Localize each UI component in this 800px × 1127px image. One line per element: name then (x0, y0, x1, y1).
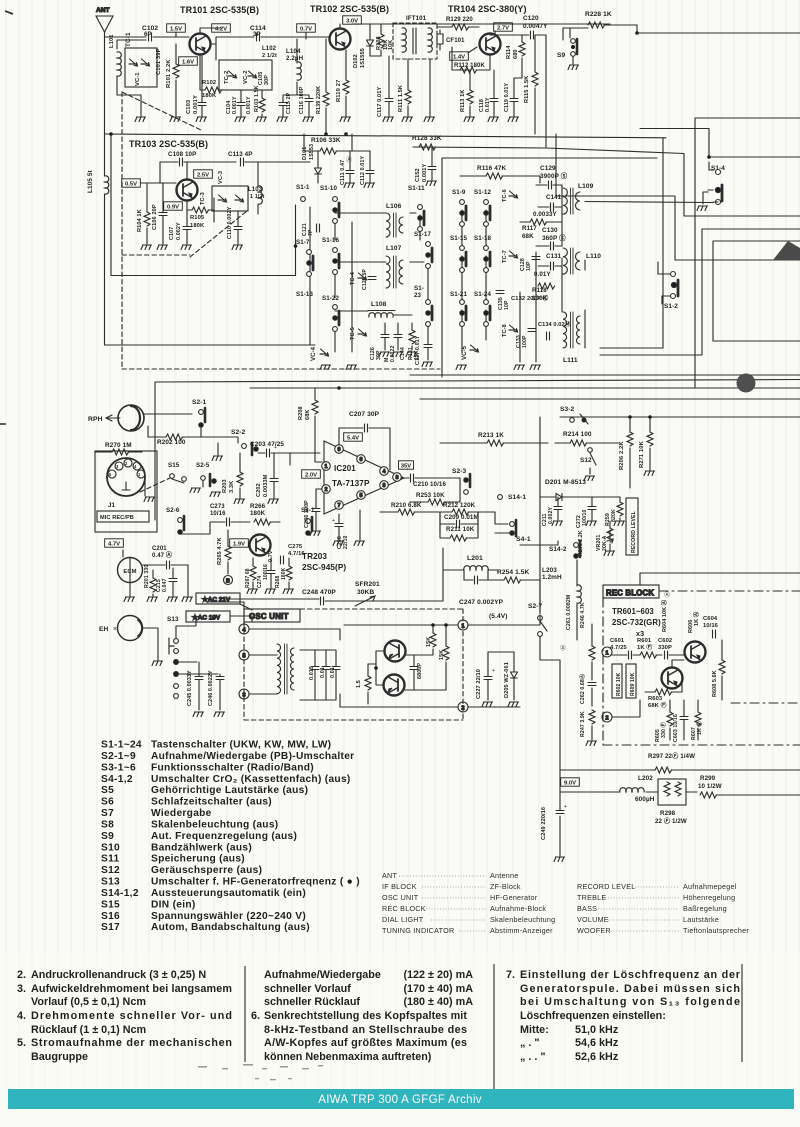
svg-text:S4-1: S4-1 (516, 536, 531, 543)
resistor R267x (250, 566, 256, 580)
w (629, 417, 631, 432)
resistor R101 (173, 64, 179, 78)
resistor R201b (150, 578, 156, 592)
svg-text:2 1/2t: 2 1/2t (262, 53, 277, 59)
resistor R202 (166, 434, 183, 440)
svg-text:R265 4.7K: R265 4.7K (217, 537, 223, 565)
svg-text:C106 20P: C106 20P (152, 204, 158, 230)
svg-text:S1-: S1- (414, 285, 424, 292)
svg-text:R601: R601 (637, 638, 652, 644)
diode D101 (315, 168, 322, 174)
switch S3-1 (306, 517, 312, 535)
wire R139 top (325, 39, 327, 92)
svg-text:C108 10P: C108 10P (168, 151, 196, 158)
label R609 box (626, 664, 636, 698)
svg-text:WOOFER: WOOFER (577, 926, 611, 935)
svg-text:7: 7 (338, 503, 341, 509)
w (162, 183, 164, 244)
wire bus AGC (413, 35, 546, 148)
wire right matrix cols (462, 210, 486, 352)
svg-text:23: 23 (414, 292, 422, 299)
ground (383, 117, 394, 122)
svg-text:0.001Y: 0.001Y (246, 96, 252, 114)
w (152, 570, 154, 596)
capacitor C209x (457, 520, 460, 528)
svg-text:S1-11: S1-11 (408, 185, 425, 192)
headphone jack RPH (106, 405, 144, 431)
capacitor C111 (346, 171, 354, 174)
resistor R605x (667, 712, 673, 726)
svg-text:L202: L202 (638, 775, 653, 782)
capacitor C104 (237, 103, 245, 106)
svg-text:TR103 2SC-535(B): TR103 2SC-535(B) (129, 139, 208, 149)
ground (402, 117, 413, 122)
w (201, 437, 238, 443)
svg-text:B: B (226, 579, 230, 585)
trimmer TC-8 (509, 325, 518, 332)
svg-text:2.5V: 2.5V (197, 172, 209, 178)
svg-text:9: 9 (338, 447, 341, 453)
wire output box inner (713, 241, 800, 341)
ground (392, 352, 403, 357)
transformer L109 (563, 188, 580, 214)
svg-text:52,6 kHz: 52,6 kHz (575, 1051, 619, 1063)
switch S2-7 (538, 616, 547, 637)
capacitor C144 (394, 335, 402, 338)
wire R116 (460, 176, 540, 183)
label MIC REC/PB (97, 511, 149, 522)
wire IFT gnd (429, 59, 431, 116)
transformer T501 (277, 644, 294, 694)
svg-text:R246 4.7K: R246 4.7K (580, 602, 586, 628)
svg-text:1K Ⓟ: 1K Ⓟ (637, 643, 652, 651)
svg-text:C152: C152 (415, 168, 421, 182)
svg-text:1.4V: 1.4V (453, 54, 465, 60)
svg-text:C245 0.0033Y: C245 0.0033Y (187, 670, 193, 706)
svg-text:Schlafzeitschalter (aus): Schlafzeitschalter (aus) (151, 797, 272, 808)
w (488, 652, 500, 700)
svg-text:10P: 10P (526, 261, 532, 271)
capacitor C125 (368, 277, 376, 280)
w (440, 511, 495, 513)
svg-text:S14-1: S14-1 (508, 494, 526, 501)
resistor R139 (323, 92, 329, 106)
capacitor C112 (366, 171, 374, 174)
transistor TR601x (662, 668, 683, 689)
resistor VR201x (607, 528, 613, 542)
osc pin 3 (239, 689, 249, 699)
transistor TR102 (330, 29, 351, 50)
svg-text:Einstellung der Löschfrequenz: Einstellung der Löschfrequenz an der (520, 969, 741, 981)
wire TR103 collector (186, 162, 188, 179)
svg-text:1.9V: 1.9V (233, 541, 245, 547)
inductor L203x (577, 585, 581, 603)
wire L101 bottom (117, 76, 141, 95)
svg-text:10 1/2W: 10 1/2W (698, 783, 722, 790)
junction (628, 415, 632, 419)
svg-text:Antenne: Antenne (490, 871, 519, 880)
svg-text:Skalenbeleuchtung: Skalenbeleuchtung (490, 915, 555, 924)
svg-text:180K: 180K (250, 510, 266, 517)
wire L109 out (585, 202, 713, 203)
junction (344, 132, 348, 136)
svg-text:C117 0.01Y: C117 0.01Y (377, 87, 383, 117)
ground (554, 857, 565, 862)
switch S1-10 (333, 197, 339, 224)
inductor L202 (620, 788, 644, 792)
svg-text:+: + (492, 668, 495, 674)
svg-text:S15: S15 (168, 462, 180, 469)
capacitor C131 (551, 262, 554, 270)
IC201 pin 9 (335, 445, 344, 454)
svg-text:C113 4P: C113 4P (228, 151, 252, 158)
svg-text:+: + (332, 518, 335, 524)
svg-text:Mitte:: Mitte: (520, 1024, 549, 1036)
w (144, 477, 146, 496)
svg-text:L105 5t: L105 5t (87, 170, 94, 193)
ground (604, 551, 615, 556)
svg-text:C273: C273 (210, 504, 225, 510)
w (380, 24, 382, 34)
svg-text:S10: S10 (101, 842, 120, 853)
w (560, 769, 655, 771)
w (338, 514, 340, 540)
svg-text:S3-2: S3-2 (560, 406, 575, 413)
svg-text:100P: 100P (522, 335, 528, 348)
ground (530, 365, 541, 370)
svg-text:D201 M-8513: D201 M-8513 (545, 479, 586, 486)
svg-text:S1-1~24: S1-1~24 (101, 740, 142, 751)
ground (422, 362, 433, 367)
svg-text:C202: C202 (256, 483, 262, 497)
svg-text:4: 4 (383, 469, 386, 475)
REC block dashed outline (603, 591, 800, 745)
svg-text:D101: D101 (302, 147, 308, 160)
capacitor C603x (680, 717, 688, 720)
svg-text:Aussteuerungsautomatik (ein): Aussteuerungsautomatik (ein) (151, 888, 306, 899)
transistor TR101 (190, 34, 211, 55)
wire R202 (148, 426, 201, 437)
svg-text:S1-1: S1-1 (296, 184, 310, 191)
capacitor C120 (531, 31, 534, 39)
w (468, 26, 479, 28)
svg-text:51,0 kHz: 51,0 kHz (575, 1024, 619, 1036)
svg-text:REC BLOCK: REC BLOCK (606, 589, 654, 598)
w (536, 245, 562, 247)
svg-text:R201 330: R201 330 (144, 565, 150, 588)
svg-text:0.5V: 0.5V (125, 181, 137, 187)
svg-text:S12: S12 (580, 457, 592, 464)
svg-text:680: 680 (513, 49, 519, 59)
svg-text:R228 1K: R228 1K (585, 11, 612, 18)
capacitor C129 (549, 181, 552, 189)
capacitor C211x (554, 507, 562, 510)
w (521, 35, 523, 42)
w (464, 570, 498, 580)
trimmer TC-2 (228, 71, 237, 78)
svg-text:C203 47/25: C203 47/25 (250, 441, 284, 448)
svg-text:S17: S17 (101, 922, 120, 933)
svg-text:VOLUME: VOLUME (577, 915, 609, 924)
capacitor C208 (335, 524, 343, 527)
svg-text:CF101: CF101 (446, 38, 465, 44)
resistor R106 (320, 148, 337, 154)
DIN socket J1 (95, 451, 157, 532)
capacitor C133 (528, 329, 536, 332)
wire right bus y216 (546, 148, 800, 216)
w (172, 568, 174, 596)
resistor R259x (617, 502, 623, 516)
voltage label 35V (399, 461, 414, 470)
svg-text:R129 220: R129 220 (446, 17, 473, 23)
ground (508, 117, 519, 122)
svg-text:TC-7: TC-7 (502, 250, 508, 263)
osc pin 1 (458, 620, 468, 630)
svg-text:4.7/25: 4.7/25 (610, 645, 627, 651)
ground (406, 352, 417, 357)
switch S1-17 (426, 242, 432, 269)
dashed DIN link (140, 478, 170, 492)
wire R214 (555, 442, 620, 444)
w (315, 388, 322, 462)
svg-text:30KB: 30KB (357, 589, 374, 596)
svg-text:R102: R102 (202, 80, 216, 86)
svg-text:RPH: RPH (88, 416, 103, 423)
speaker cone (773, 241, 800, 260)
switch S1-11 (418, 205, 424, 232)
svg-text:S7: S7 (101, 808, 114, 819)
w (414, 654, 424, 656)
wire C104 (240, 90, 242, 116)
wire R103 top (261, 90, 263, 98)
wire box S1-2 edge (600, 138, 663, 348)
switch S1-21 (460, 300, 466, 327)
w (520, 252, 536, 362)
w (495, 533, 558, 545)
svg-text:schneller Vorlauf: schneller Vorlauf (264, 983, 351, 995)
voltage label 1.9V (230, 539, 249, 548)
diode D102 (367, 40, 374, 46)
wire matrix col x352 (351, 222, 353, 352)
voltage label 0.9V (164, 202, 183, 211)
resistor Rosc (365, 676, 371, 690)
w (227, 530, 229, 546)
svg-text:S1-15: S1-15 (450, 235, 467, 242)
svg-text:3.: 3. (17, 983, 26, 995)
osc pin 2 (458, 702, 468, 712)
switch S1-24 (484, 300, 490, 327)
svg-text:schneller Rücklauf: schneller Rücklauf (264, 996, 360, 1008)
wire osc caps (300, 650, 336, 700)
ground (147, 597, 158, 602)
svg-text:DIAL LIGHT: DIAL LIGHT (382, 915, 424, 924)
w (440, 512, 478, 533)
svg-text:Löschfrequenzen einstellen:: Löschfrequenzen einstellen: (520, 1010, 666, 1022)
voltage label 0.5V (122, 179, 141, 188)
resistor R15Kb (443, 646, 449, 660)
resistor R115 (532, 72, 538, 86)
svg-text:TC-5: TC-5 (350, 327, 356, 340)
ground (167, 597, 178, 602)
svg-text:S6: S6 (101, 797, 114, 808)
ground (310, 531, 321, 536)
w (469, 106, 471, 116)
w (237, 211, 239, 244)
svg-text:0.015: 0.015 (309, 666, 315, 680)
svg-text:R266: R266 (250, 503, 266, 510)
switch S1-16 (333, 248, 339, 275)
switch S14-1 (498, 495, 503, 500)
w (591, 497, 593, 520)
w (180, 522, 210, 534)
svg-text:A/W-Kopfes auf größtes Maximum: A/W-Kopfes auf größtes Maximum (es (264, 1037, 467, 1049)
resistor R114 (519, 42, 525, 56)
capacitor C274x (267, 571, 275, 574)
paragraph column 2 (251, 969, 473, 1063)
inductor L103 (258, 186, 262, 204)
svg-text:IC201: IC201 (334, 464, 356, 473)
capacitor Cosc1 (311, 667, 319, 670)
w (394, 213, 424, 315)
label R602 box (612, 664, 622, 698)
w (520, 221, 562, 223)
svg-text:TC-8: TC-8 (502, 324, 508, 337)
resistor R108 (378, 34, 384, 48)
voltage label 2.5V (194, 170, 213, 179)
svg-text:C209 0.01M: C209 0.01M (444, 514, 479, 521)
w (380, 511, 440, 513)
resistor R212 (452, 509, 469, 515)
capacitor C246 (216, 677, 224, 680)
inductor L201x (464, 566, 488, 570)
voltage label 1.4V (450, 52, 469, 61)
svg-text:C207 30P: C207 30P (349, 411, 380, 418)
dashed gang line VC-2 (122, 92, 203, 131)
svg-text:S1-4: S1-4 (711, 165, 725, 172)
svg-text:0.047: 0.047 (162, 579, 168, 592)
svg-text:R270 1M: R270 1M (105, 442, 132, 449)
w (538, 206, 562, 208)
svg-text:C141: C141 (546, 194, 562, 201)
svg-text:C101 39P: C101 39P (156, 48, 162, 75)
w (146, 228, 148, 244)
resistor R102 (205, 87, 222, 93)
svg-text:Baßregelung: Baßregelung (683, 904, 727, 913)
svg-text:S15: S15 (101, 899, 120, 910)
w (144, 413, 192, 415)
w (288, 558, 290, 588)
switch S1-15 (460, 246, 466, 273)
svg-text:10K: 10K (388, 40, 394, 50)
svg-text:R114: R114 (506, 45, 512, 59)
resistor R128 (419, 144, 436, 150)
IC201 pin 5 (357, 491, 366, 500)
svg-text:C132 200P Ⓢ: C132 200P Ⓢ (511, 294, 549, 302)
ground (354, 541, 365, 546)
dashed gang line VC-3 (190, 211, 247, 257)
svg-text:R112 180K: R112 180K (454, 63, 485, 69)
smudge marks (198, 1064, 323, 1080)
w (672, 660, 684, 667)
capacitor Cosc2 (322, 667, 330, 670)
resistor R298b (675, 782, 681, 796)
svg-text:4.2V: 4.2V (215, 26, 227, 32)
svg-text:(170 ± 40) mA: (170 ± 40) mA (403, 983, 473, 995)
IC201 pin 8 (393, 473, 402, 482)
switch S3-2 (570, 414, 588, 424)
resistor R211x (450, 535, 467, 541)
svg-text:22 Ⓕ 1/2W: 22 Ⓕ 1/2W (655, 817, 687, 825)
switch S1-12 (484, 200, 490, 227)
svg-text:Abstimm-Anzeiger: Abstimm-Anzeiger (490, 926, 553, 935)
svg-text:Funktionsschalter (Radio/Band): Funktionsschalter (Radio/Band) (151, 762, 314, 773)
tuning box TC-2 VC-2 (219, 60, 272, 90)
ground (182, 597, 193, 602)
svg-text:L108: L108 (371, 301, 387, 308)
w (445, 625, 447, 690)
svg-text:0.47 Ⓐ: 0.47 Ⓐ (152, 551, 172, 559)
capacitor C201 (167, 561, 170, 569)
svg-text:x3: x3 (636, 629, 644, 638)
w (437, 26, 452, 28)
ground (210, 492, 221, 497)
svg-text:68K Ⓟ: 68K Ⓟ (648, 701, 667, 709)
wire L108 tank (385, 323, 412, 350)
ground (614, 521, 625, 526)
svg-text:C249 220/16: C249 220/16 (541, 807, 547, 840)
svg-text:R110 27: R110 27 (336, 80, 342, 102)
footer bar AIWA TRP 300 A GFGF Archiv (8, 1089, 794, 1109)
w (143, 628, 158, 660)
capacitor C103 (198, 103, 206, 106)
ground (277, 117, 288, 122)
resistor R104 (144, 212, 150, 226)
junction (374, 666, 378, 670)
voltage label 9.0V (561, 778, 580, 787)
svg-text:R299: R299 (700, 775, 716, 782)
ground (124, 597, 135, 602)
svg-text:Ⓐ: Ⓐ (664, 591, 670, 599)
svg-text:2SC-732(GR): 2SC-732(GR) (612, 618, 661, 627)
IC201 pin 3 (380, 481, 389, 490)
svg-text:C116 100P: C116 100P (299, 86, 305, 114)
tuning box TC-3 VC-3 (212, 186, 248, 211)
capacitor C106 (159, 213, 167, 216)
svg-text:0.001Y: 0.001Y (193, 95, 199, 114)
resistor R112 (460, 67, 477, 73)
transformer L111 (563, 312, 580, 348)
w (257, 162, 259, 214)
switch S1-4 contact (703, 185, 722, 205)
w (619, 497, 621, 520)
svg-text:R116 47K: R116 47K (477, 165, 507, 172)
variable capacitor VC-5 (470, 345, 479, 352)
capacitor C126 (381, 335, 389, 338)
svg-text:S4-1,2: S4-1,2 (101, 774, 133, 785)
svg-text:R298: R298 (660, 810, 676, 817)
IC201 pin 1 (322, 462, 331, 471)
wire R213 (440, 442, 548, 444)
svg-text:2.0V: 2.0V (305, 472, 317, 478)
switch S2-1 (199, 408, 205, 427)
svg-text:VC-1: VC-1 (135, 72, 141, 86)
capacitor C245 (195, 677, 203, 680)
svg-text:Skalenbeleuchtung (aus): Skalenbeleuchtung (aus) (151, 819, 278, 830)
IC201 pin 4 (380, 467, 389, 476)
resistor R111 (405, 90, 411, 104)
svg-text:C247 0.002YP: C247 0.002YP (459, 599, 504, 606)
w (563, 28, 573, 64)
